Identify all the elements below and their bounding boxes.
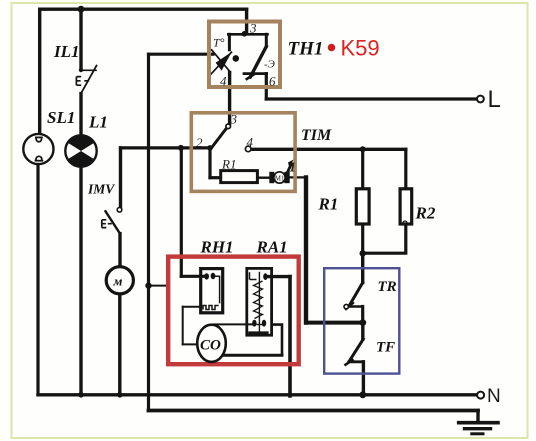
svg-text:R2: R2 (415, 204, 436, 223)
svg-text:4: 4 (220, 74, 227, 89)
svg-text:L1: L1 (88, 113, 108, 132)
svg-text:N: N (487, 386, 501, 407)
svg-text:T°: T° (213, 36, 225, 50)
svg-text:TH1: TH1 (288, 39, 324, 60)
svg-text:CO: CO (200, 338, 221, 354)
svg-text:RH1: RH1 (200, 238, 234, 257)
svg-text:6: 6 (269, 74, 276, 89)
svg-text:3: 3 (249, 21, 257, 36)
svg-text:-Э: -Э (264, 59, 275, 71)
svg-text:L: L (488, 86, 501, 113)
svg-text:TR: TR (378, 279, 397, 295)
svg-text:R1: R1 (318, 195, 339, 214)
svg-text:RA1: RA1 (256, 238, 288, 257)
svg-text:IL1: IL1 (53, 42, 80, 61)
svg-text:м: м (113, 274, 123, 289)
svg-text:M1: M1 (275, 175, 285, 183)
svg-text:3: 3 (230, 112, 238, 127)
svg-text:4: 4 (247, 135, 254, 150)
svg-text:TIM: TIM (301, 127, 332, 144)
svg-text:SL1: SL1 (47, 108, 75, 127)
svg-text:TF: TF (376, 340, 395, 356)
svg-text:K59: K59 (341, 36, 380, 61)
svg-text:1: 1 (289, 161, 296, 176)
svg-text:R1: R1 (221, 157, 236, 172)
svg-text:2: 2 (196, 135, 203, 150)
svg-text:IMV: IMV (87, 182, 115, 197)
